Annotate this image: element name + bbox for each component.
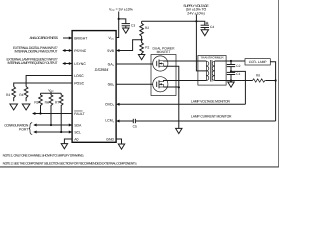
transformer T1 box bbox=[198, 56, 226, 86]
wire OVD tap bbox=[231, 71, 245, 104]
figure border right bbox=[278, 0, 280, 167]
ground C3 bbox=[123, 28, 129, 33]
ground C4 bbox=[201, 30, 208, 36]
svg-text:SDA: SDA bbox=[74, 123, 82, 127]
wire SCL bidirectional bbox=[34, 131, 72, 133]
wire secondary top to lamp bbox=[215, 60, 245, 62]
node secondary top / C2 bbox=[230, 60, 232, 62]
transformer core bbox=[209, 60, 211, 82]
wire secondary bottom bbox=[215, 80, 253, 82]
ground secondary / C1 bbox=[228, 82, 234, 87]
svg-text:BRIGHT: BRIGHT bbox=[74, 36, 88, 40]
node sources bbox=[178, 86, 180, 88]
svg-text:C5: C5 bbox=[133, 125, 137, 129]
capacitor C2 bbox=[230, 61, 232, 65]
wire BRIGHT input bbox=[63, 37, 72, 39]
svg-text:PORT: PORT bbox=[19, 127, 28, 131]
resistor R6 bbox=[49, 93, 53, 125]
wire PSYNC bidirectional bbox=[63, 50, 72, 52]
ground R3 bbox=[10, 104, 18, 110]
svg-text:R7: R7 bbox=[55, 100, 59, 104]
wire GBn gate B bbox=[116, 83, 153, 85]
svg-text:R5: R5 bbox=[34, 100, 38, 104]
wire Q2 drain to transformer primary bottom bbox=[164, 81, 207, 82]
svg-text:LSYNC: LSYNC bbox=[74, 62, 86, 66]
figure border bottom bbox=[0, 166, 279, 168]
wire supply to center tap bbox=[196, 21, 206, 71]
wire VCC 5V feed bbox=[116, 12, 119, 38]
svg-text:CCFL LAMP: CCFL LAMP bbox=[249, 60, 267, 64]
svg-text:GAn: GAn bbox=[108, 62, 115, 67]
svg-text:ANALOG BRIGHTNESS: ANALOG BRIGHTNESS bbox=[30, 36, 59, 40]
wire LCM monitor line right bbox=[135, 120, 275, 122]
svg-text:C2: C2 bbox=[236, 64, 240, 68]
svg-text:POSC: POSC bbox=[74, 81, 84, 85]
svg-text:INTERNAL DIGITAL PWM OUTPUT: INTERNAL DIGITAL PWM OUTPUT bbox=[15, 50, 58, 54]
capacitor C4 polarized bbox=[201, 24, 209, 26]
wire LOSC to R4 bbox=[26, 76, 72, 87]
wire LSYNC bidirectional bbox=[63, 63, 72, 65]
node VCC/C3 bbox=[118, 18, 120, 20]
svg-text:R4: R4 bbox=[19, 93, 23, 97]
wire GAn gate A bbox=[116, 63, 153, 65]
svg-text:NOTE 1: ONLY ONE CHANNEL SHOWN: NOTE 1: ONLY ONE CHANNEL SHOWN TO SIMPLI… bbox=[3, 154, 85, 158]
ground R1 bbox=[138, 55, 144, 60]
resistor R4 bbox=[24, 87, 28, 102]
node R5/FAULT bbox=[39, 112, 41, 114]
ground R4 bbox=[22, 104, 30, 110]
ground A0 bbox=[61, 144, 67, 149]
wire supply stub bbox=[195, 15, 197, 22]
svg-text:C4: C4 bbox=[210, 25, 214, 29]
wire sources to ground bbox=[178, 87, 180, 128]
svg-text:C1: C1 bbox=[236, 72, 240, 76]
svg-text:MOSFET: MOSFET bbox=[157, 50, 171, 54]
svg-text:LOSC: LOSC bbox=[74, 74, 84, 78]
svg-text:VCC: VCC bbox=[108, 36, 114, 41]
resistor R1 bbox=[140, 40, 144, 55]
resistor R5 bbox=[39, 93, 43, 113]
svg-text:24V ±10%): 24V ±10%) bbox=[187, 11, 205, 15]
svg-text:FAULT: FAULT bbox=[74, 112, 85, 116]
resistor R8 bbox=[253, 79, 267, 82]
node R2/R1 bbox=[141, 39, 143, 41]
resistor R2 bbox=[140, 21, 144, 39]
wire POSC to R3 bbox=[14, 83, 72, 87]
transformer primary winding bbox=[205, 61, 207, 81]
wire OVD monitor line bbox=[119, 103, 245, 105]
svg-text:LCMn: LCMn bbox=[105, 119, 114, 124]
svg-text:NOTE 2: SEE THE COMPONENT SELE: NOTE 2: SEE THE COMPONENT SELECTION SECT… bbox=[3, 162, 138, 166]
node R6/SDA bbox=[50, 124, 52, 126]
svg-text:R3: R3 bbox=[6, 93, 10, 97]
wire C3 branch bbox=[119, 19, 126, 24]
svg-text:INTERNAL LAMP FREQUENCY OUTPUT: INTERNAL LAMP FREQUENCY OUTPUT bbox=[8, 61, 58, 65]
wire FAULT output bbox=[33, 113, 72, 115]
CCFL lamp box bbox=[245, 59, 270, 65]
wire Q1 source bbox=[164, 66, 179, 87]
wire A0 to ground bbox=[64, 139, 72, 144]
transformer secondary winding bbox=[214, 61, 216, 81]
configuration port brace bbox=[29, 123, 32, 135]
wire Q1 drain to transformer primary top bbox=[164, 60, 207, 62]
ground mosfet sources bbox=[176, 128, 182, 133]
resistor R3 bbox=[12, 87, 16, 102]
capacitor C1 bbox=[230, 71, 232, 72]
svg-text:R2: R2 bbox=[145, 26, 149, 30]
ground GND bbox=[118, 144, 124, 149]
dual power mosfet box bbox=[151, 55, 176, 96]
svg-text:DS3984: DS3984 bbox=[95, 68, 109, 72]
svg-text:PSYNC: PSYNC bbox=[74, 49, 87, 53]
node C2/C1 midpoint bbox=[230, 70, 232, 72]
wire C4 branch bbox=[196, 21, 204, 25]
svg-text:VCC = 5V ±10%: VCC = 5V ±10% bbox=[109, 7, 133, 12]
svg-text:LAMP VOLTAGE MONITOR: LAMP VOLTAGE MONITOR bbox=[191, 99, 231, 103]
supply rail bbox=[142, 20, 197, 22]
node supply bbox=[195, 20, 197, 22]
node lamp return / R8 bbox=[275, 79, 277, 81]
wire lamp return bbox=[270, 62, 275, 121]
node secondary bottom ground bbox=[230, 79, 232, 81]
node R7/SCL bbox=[60, 131, 62, 133]
capacitor C5 series bbox=[132, 119, 134, 123]
node VCC pullup rail bbox=[41, 92, 62, 94]
wire Q2 source join bbox=[164, 86, 179, 88]
svg-text:C3: C3 bbox=[131, 23, 135, 27]
wire 5VB feed bbox=[119, 40, 142, 51]
svg-text:OVDn: OVDn bbox=[105, 103, 115, 108]
wire SDA bidirectional bbox=[34, 124, 72, 126]
svg-text:R6: R6 bbox=[45, 100, 49, 104]
svg-text:A0: A0 bbox=[74, 137, 78, 141]
svg-text:GND: GND bbox=[106, 137, 114, 141]
svg-text:SCL: SCL bbox=[74, 130, 81, 134]
resistor R7 bbox=[59, 93, 63, 132]
svg-text:GBn: GBn bbox=[108, 83, 115, 88]
wire GND pin bbox=[116, 139, 121, 144]
svg-text:LAMP CURRENT MONITOR: LAMP CURRENT MONITOR bbox=[191, 115, 232, 119]
transistor Q2 lower mosfet bbox=[153, 77, 168, 92]
op-amp U1 DS3984 chip body bbox=[72, 31, 116, 143]
svg-text:R1: R1 bbox=[145, 45, 149, 49]
wire LCM monitor line left bbox=[119, 120, 133, 122]
svg-text:R8: R8 bbox=[256, 74, 260, 78]
transistor Q1 upper mosfet bbox=[153, 56, 168, 71]
svg-text:VCC: VCC bbox=[48, 88, 54, 93]
svg-text:TRANSFORMER: TRANSFORMER bbox=[200, 56, 224, 60]
capacitor C3 bbox=[122, 23, 130, 25]
svg-text:5VB: 5VB bbox=[107, 49, 114, 53]
